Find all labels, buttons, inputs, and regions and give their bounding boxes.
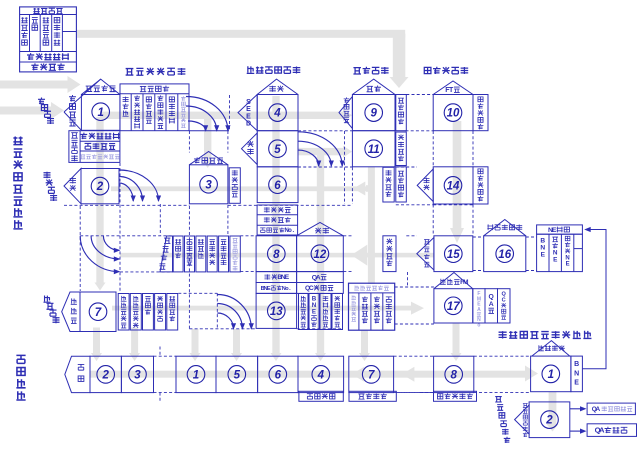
header: narrow QFD deployment — [499, 331, 507, 338]
diagonal label: requirement analysis — [38, 97, 45, 104]
bottom right box 2 with QA diamond — [529, 402, 570, 438]
matrix 2 — [81, 169, 119, 204]
svg-text:A: A — [316, 274, 321, 281]
svg-text:S: S — [246, 99, 251, 106]
matrix 3 house — [189, 165, 228, 204]
parts cost table — [349, 283, 395, 330]
svg-text:14: 14 — [447, 181, 460, 193]
arcs from parts columns — [217, 295, 251, 329]
header: reliability analysis — [424, 67, 431, 73]
gray band: matrix11 down to parts cost table with left branch — [368, 167, 375, 284]
current value row columns — [173, 236, 183, 272]
matrix 12 with method roof — [297, 236, 344, 272]
NE review box — [537, 225, 583, 234]
svg-text:A: A — [477, 307, 481, 313]
parts pentagon label — [62, 292, 80, 332]
cost planning column right of matrix9 — [396, 95, 407, 131]
matrix 17 with parts FM roof — [434, 289, 473, 323]
matrix 5 — [257, 131, 298, 167]
svg-text:.: . — [289, 286, 291, 292]
matrix 14 — [433, 167, 473, 204]
gray band: function row horizontal matrix2 to matrix11 area — [111, 186, 374, 191]
market survey box — [20, 7, 77, 72]
matrix 10 house — [433, 95, 473, 131]
svg-text:3: 3 — [205, 179, 212, 191]
svg-text:E: E — [267, 286, 271, 292]
header: quality characteristics analysis — [126, 69, 134, 76]
svg-text:.: . — [292, 228, 294, 234]
svg-text:11: 11 — [368, 144, 380, 156]
arcs from matrix2 — [119, 170, 159, 201]
svg-text:2: 2 — [96, 181, 104, 193]
gray arrow: market to quality-element roof — [0, 81, 68, 89]
matrix 1 house — [81, 95, 120, 131]
svg-text:A: A — [489, 301, 494, 308]
svg-text:E: E — [574, 380, 579, 387]
svg-text:17: 17 — [447, 301, 460, 313]
svg-text:N: N — [565, 255, 569, 261]
svg-text:5: 5 — [274, 144, 281, 156]
svg-text:E: E — [566, 262, 570, 268]
header: production technology analysis — [247, 66, 255, 73]
bottom box 8 — [434, 356, 474, 392]
mechanism rows above matrix8 — [257, 205, 298, 235]
svg-text:8: 8 — [273, 249, 280, 261]
matrix 15 — [434, 236, 473, 272]
svg-text:C: C — [309, 285, 314, 292]
design quality rows below matrix1 — [69, 131, 120, 163]
gray band: matrix1-region arcs area down to matrix3 — [204, 112, 211, 160]
svg-text:A: A — [599, 426, 605, 435]
gray band: parts FM row into matrix17 — [112, 306, 414, 311]
method cost column — [396, 132, 407, 166]
bottom box 7 — [349, 356, 394, 392]
svg-text:E: E — [246, 113, 251, 120]
svg-text:2: 2 — [101, 370, 109, 382]
svg-text:D: D — [246, 121, 251, 128]
svg-text:5: 5 — [234, 370, 241, 382]
matrix 4 house — [257, 95, 298, 131]
svg-text:E: E — [553, 256, 558, 263]
quality element row label — [160, 236, 173, 272]
svg-text:6: 6 — [274, 180, 281, 192]
svg-text:3: 3 — [134, 370, 141, 382]
svg-text:Q: Q — [489, 294, 494, 301]
function cost column — [383, 167, 394, 202]
svg-text:7: 7 — [95, 307, 102, 319]
svg-text:13: 13 — [270, 306, 283, 318]
svg-text:15: 15 — [447, 249, 460, 261]
bottom right box 1 with business function roof — [531, 356, 571, 392]
cost planning column row3 — [396, 167, 407, 202]
svg-text:E: E — [541, 251, 546, 258]
arcs from matrix5 to tech-method row — [298, 132, 342, 166]
left vertical label: comprehensive quality deployment — [13, 137, 22, 145]
gray band: bottom technology row horizontal — [90, 371, 526, 378]
reliability planning column 2 — [473, 167, 488, 204]
gray band: matrix1 down through matrix2 to matrix7 — [96, 117, 103, 283]
BNE column — [571, 356, 583, 392]
gray arrow: matrix5 to matrix11 — [298, 148, 343, 155]
diagonal label: parts analysis — [43, 295, 50, 302]
svg-text:7: 7 — [368, 370, 375, 382]
svg-text:o: o — [477, 322, 480, 328]
gray band: quality row horizontal matrix1 to matrix9 — [100, 112, 344, 119]
matrix 16 with test method label — [484, 236, 526, 272]
svg-text:C: C — [502, 298, 506, 304]
svg-text:M: M — [463, 279, 469, 286]
svg-text:E: E — [312, 309, 316, 316]
function summary column — [229, 168, 240, 204]
arrow to QA activity list box — [570, 408, 584, 410]
svg-text:6: 6 — [275, 370, 282, 382]
svg-text:T: T — [449, 87, 454, 94]
gray band: quality-element row to cost row (horizontal through matrix8,12) — [120, 253, 434, 258]
bottom row boxes — [90, 356, 121, 392]
parts property columns — [118, 294, 129, 331]
characteristic cost column — [383, 236, 396, 272]
svg-text:4: 4 — [273, 108, 281, 120]
gray flow band: market survey to cost analysis (top L-shaped) — [77, 30, 405, 38]
matrix 9 house — [352, 95, 395, 131]
left vertical label: technology deployment — [16, 355, 25, 363]
QA table rows below matrix12 — [297, 272, 344, 283]
gray band: below parts row down to bottom box1 — [192, 329, 199, 353]
gray band: tech-method column through matrix12 to bottom row box4 — [317, 150, 324, 353]
diagonal label: function analysis — [43, 172, 50, 178]
svg-text:1: 1 — [548, 369, 554, 381]
gray band: below parts row down to bottom box5 — [233, 329, 240, 353]
gray arrow: market to demanded-quality diamond — [0, 107, 52, 115]
reliability planning column 1 — [473, 95, 488, 131]
svg-text:N: N — [574, 370, 579, 377]
arcs from matrix1 to matrix3 guides — [186, 97, 228, 131]
columns right of matrix17 — [473, 289, 485, 323]
svg-text:4: 4 — [317, 370, 325, 382]
matrix 8 — [256, 236, 297, 272]
feedback line BNE to NE review — [582, 230, 606, 369]
svg-text:8: 8 — [450, 370, 457, 382]
technology pentagon — [65, 356, 90, 392]
svg-text:1: 1 — [193, 370, 199, 382]
outside label: quality assurance items — [495, 397, 502, 402]
gray band: production tech column matrices 4-6 down to bottom row box6 — [272, 96, 279, 353]
svg-text:B: B — [574, 361, 579, 368]
quality planning table — [120, 84, 189, 131]
svg-text:E: E — [552, 227, 557, 234]
matrix 7 — [80, 292, 116, 332]
gray band: bottom box1 down to bottom box2 — [549, 392, 557, 424]
arrow to QA system diagram box — [570, 430, 584, 432]
bottom labels — [299, 391, 343, 401]
svg-text:1: 1 — [97, 107, 103, 119]
gray band: matrix17 down to bottom box8 — [453, 323, 460, 353]
svg-text:12: 12 — [314, 249, 327, 261]
matrix 11 — [352, 131, 395, 167]
header: cost analysis — [353, 68, 361, 74]
gray band: matrix10 down through matrix14 to matrix15 — [453, 121, 462, 230]
matrix 6 — [257, 167, 298, 203]
svg-text:A: A — [595, 406, 600, 413]
svg-text:E: E — [285, 274, 290, 281]
matrix 13 — [256, 293, 297, 328]
svg-text:16: 16 — [498, 249, 511, 261]
BNE rows below matrix8 — [256, 272, 297, 283]
gray band: below matrix2 chain to bottom box2 — [93, 328, 100, 354]
gray band: parts columns down to bottom box3 — [131, 328, 138, 354]
columns right of matrix13 — [299, 294, 309, 330]
svg-text:10: 10 — [447, 108, 460, 120]
svg-text:E: E — [246, 106, 251, 113]
svg-text:9: 9 — [370, 108, 377, 120]
svg-text:2: 2 — [545, 415, 553, 427]
arcs from matrix2 region to current value row — [80, 236, 119, 272]
